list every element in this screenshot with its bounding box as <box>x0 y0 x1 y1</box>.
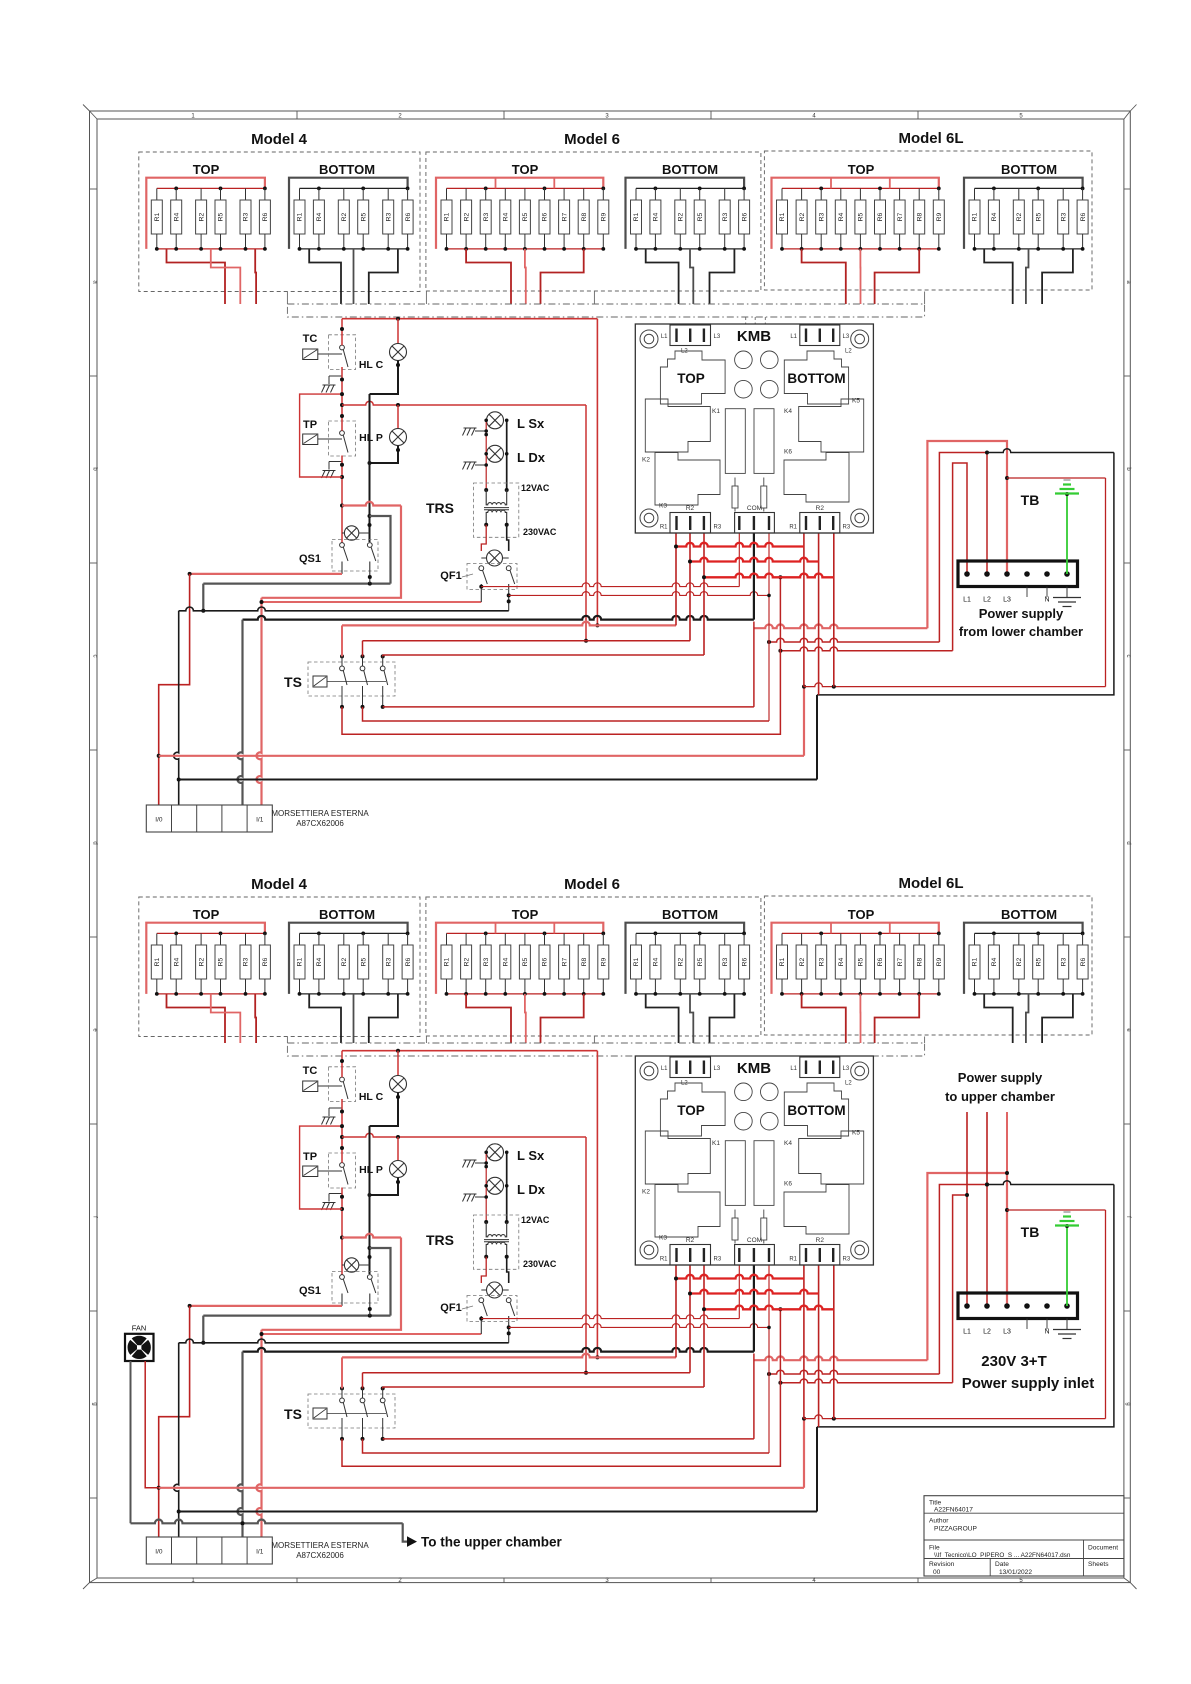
KMB indicator (upper) <box>761 380 779 398</box>
wire FAN phase <box>145 1361 159 1488</box>
svg-text:BOTTOM: BOTTOM <box>787 371 845 386</box>
ground L Dx (upper) <box>475 464 486 466</box>
phase exit wire 3 (Model6L TOP upper) <box>875 249 920 304</box>
wire QF1 neutral (lower) <box>179 1339 509 1343</box>
relay board KMB (lower) <box>635 1056 873 1265</box>
resistor R6 (Model4 TOP upper) <box>264 188 266 200</box>
svg-text:R1: R1 <box>154 957 161 966</box>
resistor R2 (Model4 TOP lower) <box>200 933 202 945</box>
terminal strip MORSETTIERA ESTERNA (lower) <box>146 1537 272 1564</box>
svg-text:L2: L2 <box>845 1081 852 1087</box>
KMB bottom connector right (lower) <box>800 1245 840 1266</box>
TS pole 2 (upper) <box>361 654 365 658</box>
terminal block TB (upper) <box>958 561 1078 587</box>
sectioner TS (upper) <box>308 662 395 696</box>
svg-text:c: c <box>1125 655 1131 658</box>
svg-text:KMB: KMB <box>737 1060 771 1077</box>
svg-text:R1: R1 <box>154 212 161 221</box>
resistor R1 (Model4 TOP lower) <box>156 933 158 945</box>
svg-text:R4: R4 <box>503 212 510 221</box>
svg-text:QS1: QS1 <box>299 553 321 565</box>
svg-text:R1: R1 <box>633 212 640 221</box>
phase exit wire 3 (Model4 TOP lower) <box>254 994 257 1043</box>
KMB indicator (lower) <box>735 1083 753 1101</box>
KMB relay K6 (upper) <box>784 453 849 503</box>
svg-text:R6: R6 <box>741 957 748 966</box>
resistor R2 (Model6 BOTTOM upper) <box>679 188 681 200</box>
wire phase drop to TS feed (lower) <box>596 1051 598 1358</box>
KMB driver block 2 (lower) <box>754 1141 774 1206</box>
svg-text:BOTTOM: BOTTOM <box>662 907 718 922</box>
KMB indicator (upper) <box>735 380 753 398</box>
svg-text:R4: R4 <box>316 212 323 221</box>
resistor R7 (Model6L TOP lower) <box>899 933 901 945</box>
phase exit wire 2 (Model6L BOTTOM lower) <box>1026 994 1029 1043</box>
wire KMB aux pin 2 (upper) <box>768 533 770 721</box>
svg-text:R1: R1 <box>972 957 979 966</box>
wire phase drop to TS feed (upper) <box>596 319 598 626</box>
resistor R5 (Model4 TOP upper) <box>220 188 222 200</box>
svg-text:Document: Document <box>1088 1545 1118 1552</box>
frame row ticks left <box>90 188 98 190</box>
svg-text:R6: R6 <box>262 957 269 966</box>
svg-text:MORSETTIERA ESTERNA: MORSETTIERA ESTERNA <box>271 1541 369 1550</box>
black supply loop Model6L BOTTOM lower <box>964 923 1083 994</box>
svg-text:L3: L3 <box>843 334 850 340</box>
resistor R4 (Model4 TOP lower) <box>175 933 177 945</box>
svg-text:R1: R1 <box>660 1257 668 1263</box>
resistor R1 (Model6 TOP upper) <box>446 188 448 200</box>
svg-text:L3: L3 <box>843 1066 850 1072</box>
wire phase bus to I/0 (lower) <box>159 1487 804 1489</box>
TC switch contact (lower) <box>340 1077 345 1082</box>
earth wire green (upper) <box>1066 494 1068 574</box>
KMB relay K3 (lower) <box>655 1185 720 1238</box>
wire KMB R1 left pin (upper) <box>675 533 677 625</box>
svg-text:12VAC: 12VAC <box>521 1215 550 1225</box>
resistor R2 (Model4 BOTTOM lower) <box>343 933 345 945</box>
svg-text:R2: R2 <box>198 212 205 221</box>
signal lamp HL C (lower) <box>397 1051 399 1076</box>
KMB bottom connector middle (lower) <box>735 1245 775 1266</box>
svg-text:A87CX62006: A87CX62006 <box>296 819 344 828</box>
wire lamp neutral trunk (lower) <box>369 1126 371 1274</box>
top bus Model6L TOP upper <box>782 187 939 189</box>
svg-text:Model 4: Model 4 <box>251 131 307 148</box>
svg-text:QS1: QS1 <box>299 1285 321 1297</box>
svg-text:R6: R6 <box>405 957 412 966</box>
svg-text:L3: L3 <box>714 334 721 340</box>
svg-text:R3: R3 <box>722 957 729 966</box>
resistor R9 (Model6L TOP upper) <box>938 188 940 200</box>
drawing frame outer border <box>90 111 1131 1583</box>
svg-text:To the upper chamber: To the upper chamber <box>421 1535 563 1550</box>
resistor R6 (Model4 BOTTOM upper) <box>407 188 409 200</box>
resistor R4 (Model6 BOTTOM upper) <box>654 188 656 200</box>
wire QF1 neutral (upper) <box>179 607 509 611</box>
red supply loop Model6 TOP upper <box>436 178 603 249</box>
svg-text:K2: K2 <box>642 457 650 464</box>
resistor R4 (Model6 TOP lower) <box>504 933 506 945</box>
svg-text:R3: R3 <box>843 525 851 531</box>
wire phase L3 from TB (upper) <box>754 624 928 628</box>
resistor R2 (Model6L BOTTOM upper) <box>1018 188 1020 200</box>
KMB relay K1-K2 (upper) <box>645 399 710 452</box>
top bus Model6L BOTTOM upper <box>975 187 1083 189</box>
KMB driver block 1 (upper) <box>725 409 745 474</box>
svg-text:L Dx: L Dx <box>517 1182 546 1197</box>
KMB relay K4-K5 (lower) <box>799 1131 864 1184</box>
wire HL C neutral (upper) <box>370 361 399 395</box>
svg-text:R6: R6 <box>741 212 748 221</box>
svg-text:L3: L3 <box>714 1066 721 1072</box>
resistor R7 (Model6 TOP lower) <box>563 933 565 945</box>
wire TS output 1 (upper) <box>342 577 780 734</box>
wire neutral left drop (upper) <box>202 584 204 611</box>
signal lamp HL C (upper) <box>397 319 399 344</box>
svg-text:R4: R4 <box>653 212 660 221</box>
svg-text:R3: R3 <box>1060 212 1067 221</box>
resistor R1 (Model6L TOP upper) <box>781 188 783 200</box>
wire bus A to TC and HL C (lower) <box>342 1050 597 1052</box>
wire KMB R1 left pin (lower) <box>675 1265 677 1357</box>
phase exit wire 1 (Model6L BOTTOM lower) <box>984 994 1013 1043</box>
wire TC-TP control vertical (lower) <box>341 1051 343 1078</box>
wire HL P neutral (upper) <box>370 446 399 463</box>
svg-text:K5: K5 <box>852 1130 860 1137</box>
svg-text:R1: R1 <box>779 957 786 966</box>
svg-text:R2: R2 <box>1016 957 1023 966</box>
resistor R3 (Model6 TOP upper) <box>485 188 487 200</box>
KMB relay K4-K5 (upper) <box>799 399 864 452</box>
svg-text:Author: Author <box>929 1518 949 1525</box>
earth symbol green (lower) <box>1055 1224 1079 1226</box>
resistor R5 (Model6 TOP lower) <box>524 933 526 945</box>
red supply loop Model6L TOP upper <box>772 178 939 249</box>
dash-dot interconnect band (upper) <box>287 304 924 317</box>
svg-text:PIZZAGROUP: PIZZAGROUP <box>934 1526 977 1533</box>
svg-text:R3: R3 <box>483 212 490 221</box>
terminal block TB (lower) <box>958 1293 1078 1319</box>
resistor R3 (Model4 TOP upper) <box>245 188 247 200</box>
svg-text:R4: R4 <box>173 957 180 966</box>
bottom bus Model6L TOP upper <box>782 248 939 250</box>
phase exit wire 1 (Model4 BOTTOM lower) <box>309 994 341 1043</box>
svg-text:L Sx: L Sx <box>517 416 545 431</box>
svg-text:I/0: I/0 <box>155 817 163 824</box>
svg-text:MORSETTIERA ESTERNA: MORSETTIERA ESTERNA <box>271 809 369 818</box>
wire phase L1 to upper chamber <box>966 1112 968 1195</box>
svg-text:230VAC: 230VAC <box>523 1259 557 1269</box>
svg-text:R7: R7 <box>897 957 904 966</box>
thermostat contact TP (lower) <box>303 1166 318 1177</box>
svg-text:R4: R4 <box>838 957 845 966</box>
svg-text:R3: R3 <box>843 1257 851 1263</box>
phase exit wire 1 (Model6L TOP lower) <box>802 994 846 1043</box>
wire KMB R3 right pin (lower) <box>833 1265 835 1419</box>
earth symbol green (upper) <box>1055 492 1079 494</box>
svg-text:R8: R8 <box>581 212 588 221</box>
wire phase bus to I/0 (upper) <box>159 755 804 757</box>
wire neutral bus to left (lower) <box>203 1314 390 1316</box>
svg-text:R1: R1 <box>972 212 979 221</box>
frame corner bevels <box>90 111 98 119</box>
KMB resistor r1 (lower) <box>734 1210 736 1219</box>
resistor R1 (Model6L BOTTOM lower) <box>974 933 976 945</box>
svg-text:Power supply: Power supply <box>979 606 1064 621</box>
dash-dot interconnect band (lower) <box>287 1043 924 1056</box>
resistor R6 (Model6L BOTTOM upper) <box>1082 188 1084 200</box>
phase exit wire 1 (Model4 TOP lower) <box>167 994 226 1043</box>
dashed enclosure Model 6 <box>426 152 761 291</box>
ground L Sx (lower) <box>475 1162 486 1164</box>
phase exit wire 2 (Model6 BOTTOM lower) <box>690 994 693 1043</box>
TC ground branch (upper) <box>341 370 343 376</box>
KMB bottom connector left (upper) <box>670 513 711 534</box>
black supply loop Model6L BOTTOM upper <box>964 178 1083 249</box>
TB terminal (lower) <box>964 1303 970 1309</box>
svg-text:R3: R3 <box>722 212 729 221</box>
svg-text:K4: K4 <box>784 1140 792 1147</box>
svg-text:R2: R2 <box>198 957 205 966</box>
resistor R7 (Model6 TOP upper) <box>563 188 565 200</box>
TS pole 1 (lower) <box>340 1386 344 1390</box>
svg-text:R2: R2 <box>686 505 695 512</box>
phase exit wire 3 (Model4 TOP upper) <box>254 249 257 304</box>
phase exit wire 2 (Model4 BOTTOM upper) <box>353 249 355 304</box>
phase exit wire 3 (Model6 BOTTOM lower) <box>710 994 735 1043</box>
svg-text:12VAC: 12VAC <box>521 483 550 493</box>
KMB indicator (upper) <box>735 351 753 369</box>
svg-text:L1: L1 <box>790 1066 797 1072</box>
resistor R5 (Model6L BOTTOM upper) <box>1037 188 1039 200</box>
wire lamp feeds 12VAC (upper) <box>485 420 487 490</box>
resistor R4 (Model6L TOP upper) <box>840 188 842 200</box>
bottom bus Model6 BOTTOM upper <box>636 248 744 250</box>
svg-text:R8: R8 <box>916 957 923 966</box>
svg-text:Power supply inlet: Power supply inlet <box>962 1375 1095 1392</box>
dashed enclosure Model 6 <box>426 897 761 1036</box>
resistor R6 (Model6 TOP lower) <box>544 933 546 945</box>
KMB relay K3 (upper) <box>655 453 720 506</box>
KMB mounting hole (upper) <box>640 330 658 348</box>
relay board KMB (upper) <box>635 324 873 533</box>
top bus Model4 TOP lower <box>157 932 265 934</box>
svg-text:KMB: KMB <box>737 328 771 345</box>
wire TS pole2 top to KMB R2 (upper) <box>363 640 691 642</box>
svg-text:BOTTOM: BOTTOM <box>1001 907 1057 922</box>
svg-text:R2: R2 <box>799 957 806 966</box>
resistor R3 (Model6 BOTTOM lower) <box>724 933 726 945</box>
wire switched phase loop to terminal I/1 (upper) <box>342 502 401 506</box>
TP switch contact (lower) <box>340 1163 345 1168</box>
wire QF1 feed (lower) <box>262 1333 482 1335</box>
svg-text:230V 3+T: 230V 3+T <box>981 1353 1046 1370</box>
resistor R2 (Model6L TOP lower) <box>801 933 803 945</box>
KMB indicator (lower) <box>761 1083 779 1101</box>
wire jumper R2-R2 (lower) <box>690 1290 819 1294</box>
svg-text:COM: COM <box>747 1237 762 1244</box>
wire TS output 2 (lower) <box>363 1439 770 1453</box>
svg-text:R6: R6 <box>877 212 884 221</box>
TS pole 1 (upper) <box>340 654 344 658</box>
svg-text:R8: R8 <box>581 957 588 966</box>
svg-text:R3: R3 <box>818 957 825 966</box>
svg-text:R3: R3 <box>714 525 722 531</box>
lamp L Dx (lower) <box>487 1177 504 1194</box>
phase exit wire 3 (Model6L BOTTOM lower) <box>1042 994 1073 1043</box>
svg-text:R9: R9 <box>936 212 943 221</box>
phase exit wire 3 (Model4 BOTTOM lower) <box>369 994 398 1043</box>
KMB indicator (upper) <box>761 351 779 369</box>
wire neutral to power terminal (upper) <box>987 449 1114 453</box>
svg-text:R5: R5 <box>858 212 865 221</box>
svg-text:N: N <box>1044 1329 1049 1336</box>
resistor R1 (Model6L BOTTOM upper) <box>974 188 976 200</box>
svg-text:L3: L3 <box>1003 1329 1011 1336</box>
phase exit wire 2 (Model6 BOTTOM upper) <box>690 249 693 304</box>
resistor R3 (Model6 BOTTOM upper) <box>724 188 726 200</box>
resistor R1 (Model4 TOP upper) <box>156 188 158 200</box>
wire TS output 1 (lower) <box>342 1309 780 1466</box>
svg-text:R1: R1 <box>297 212 304 221</box>
transformer TRS (lower) <box>474 1215 519 1269</box>
svg-text:00: 00 <box>933 1569 941 1576</box>
dashed enclosure Model 6L <box>764 896 1092 1035</box>
bottom bus Model6 BOTTOM lower <box>636 993 744 995</box>
svg-text:R5: R5 <box>218 957 225 966</box>
KMB bottom connector middle (upper) <box>735 513 775 534</box>
svg-text:L Dx: L Dx <box>517 450 546 465</box>
phase exit wire 3 (Model6 TOP upper) <box>541 249 584 304</box>
bottom bus Model4 BOTTOM upper <box>300 248 408 250</box>
wire neutral loop (lower) <box>370 1248 391 1316</box>
svg-text:R6: R6 <box>405 212 412 221</box>
svg-text:TOP: TOP <box>512 162 539 177</box>
resistor R8 (Model6L TOP upper) <box>918 188 920 200</box>
svg-text:L2: L2 <box>845 349 852 355</box>
svg-text:TC: TC <box>303 1065 318 1077</box>
TB terminal (upper) <box>1064 571 1070 577</box>
phase exit wire 2 (Model6 TOP lower) <box>524 994 527 1043</box>
KMB BOTTOM relay block (upper) <box>784 351 848 404</box>
svg-text:R5: R5 <box>522 957 529 966</box>
resistor R3 (Model6 TOP lower) <box>485 933 487 945</box>
wire COM neutral to terminal (lower) <box>243 1348 754 1352</box>
svg-text:K3: K3 <box>659 1235 667 1242</box>
resistor R2 (Model6L BOTTOM lower) <box>1018 933 1020 945</box>
KMB driver block 2 (upper) <box>754 409 774 474</box>
wire bus A to TC and HL C (upper) <box>342 318 597 320</box>
top bus Model6L TOP lower <box>782 932 939 934</box>
phase exit wire 3 (Model6L TOP lower) <box>875 994 920 1043</box>
wire left phase drop to terminal I/0 (lower) <box>159 1306 190 1537</box>
wire TS pole1 top to KMB R1 (lower) <box>342 1354 676 1358</box>
svg-text:Model 6: Model 6 <box>564 876 620 893</box>
wire neutral to power terminal (lower) <box>987 1181 1114 1185</box>
svg-text:File: File <box>929 1545 940 1552</box>
wire FAN neutral <box>130 1361 132 1523</box>
svg-text:Revision: Revision <box>929 1561 955 1568</box>
phase exit wire 1 (Model6 TOP upper) <box>466 249 511 304</box>
svg-text:from lower chamber: from lower chamber <box>959 624 1083 639</box>
terminal strip MORSETTIERA ESTERNA (upper) <box>146 805 272 832</box>
resistor R3 (Model6L BOTTOM lower) <box>1062 933 1064 945</box>
phase exit wire 1 (Model4 BOTTOM upper) <box>309 249 341 304</box>
wire KMB COM pin (upper) <box>753 533 755 620</box>
svg-text:TOP: TOP <box>677 1103 705 1118</box>
resistor R2 (Model4 BOTTOM upper) <box>343 188 345 200</box>
resistor R4 (Model6 TOP upper) <box>504 188 506 200</box>
svg-text:R3: R3 <box>385 957 392 966</box>
svg-text:N: N <box>1044 597 1049 604</box>
svg-text:13/01/2022: 13/01/2022 <box>999 1569 1032 1576</box>
svg-text:TC: TC <box>303 333 318 345</box>
wire phase L3 from TB (lower) <box>754 1356 928 1360</box>
TB terminal stubs (upper) <box>1026 587 1028 598</box>
resistor R4 (Model6 BOTTOM lower) <box>654 933 656 945</box>
svg-text:R5: R5 <box>360 212 367 221</box>
svg-text:L2: L2 <box>983 597 991 604</box>
svg-text:TB: TB <box>1021 492 1040 508</box>
resistor R9 (Model6L TOP lower) <box>938 933 940 945</box>
wire KMB R3 right pin (upper) <box>833 533 835 687</box>
svg-text:R4: R4 <box>316 957 323 966</box>
wire control line a to KMB (lower) <box>481 1315 739 1319</box>
phase exit wire 2 (Model6 TOP upper) <box>524 249 527 304</box>
resistor R2 (Model6 TOP lower) <box>465 933 467 945</box>
KMB relay K6 (lower) <box>784 1185 849 1235</box>
svg-text:R2: R2 <box>341 957 348 966</box>
svg-text:Model 6L: Model 6L <box>898 875 963 892</box>
phase exit wire 2 (Model6L BOTTOM upper) <box>1026 249 1029 304</box>
resistor R9 (Model6 TOP lower) <box>602 933 604 945</box>
resistor R6 (Model6 BOTTOM upper) <box>743 188 745 200</box>
svg-text:R2: R2 <box>463 212 470 221</box>
svg-text:R5: R5 <box>360 957 367 966</box>
wire bottom oven phase return (upper) <box>1007 477 1106 479</box>
svg-text:L2: L2 <box>681 1081 688 1087</box>
KMB top connector right (upper) <box>800 325 840 346</box>
phase exit wire 2 (Model4 TOP lower) <box>211 994 241 1043</box>
sectioner TS (lower) <box>308 1394 395 1428</box>
svg-text:L2: L2 <box>681 349 688 355</box>
signal lamp HL P (lower) <box>397 1137 399 1161</box>
svg-text:R6: R6 <box>542 212 549 221</box>
svg-text:R5: R5 <box>697 212 704 221</box>
resistor R1 (Model6 BOTTOM lower) <box>635 933 637 945</box>
TS pole 3 (upper) <box>381 654 385 658</box>
svg-text:K5: K5 <box>852 398 860 405</box>
top bus Model6 BOTTOM upper <box>636 187 744 189</box>
QF1 dashed enclosure (upper) <box>467 564 517 590</box>
wire phase L1 from TB (upper) <box>780 647 952 651</box>
ground L Sx (upper) <box>475 430 486 432</box>
svg-text:R2: R2 <box>463 957 470 966</box>
wire phase L1 from TB (lower) <box>780 1379 952 1383</box>
wire bus B to TP and HL P (upper) <box>342 401 586 405</box>
svg-text:R5: R5 <box>858 957 865 966</box>
svg-text:R1: R1 <box>789 1257 797 1263</box>
TB terminal (lower) <box>1044 1303 1050 1309</box>
svg-text:R3: R3 <box>385 212 392 221</box>
svg-text:TOP: TOP <box>193 907 220 922</box>
resistor R5 (Model6 TOP upper) <box>524 188 526 200</box>
resistor R3 (Model4 BOTTOM lower) <box>387 933 389 945</box>
KMB bottom connector right (upper) <box>800 513 840 534</box>
svg-text:R2: R2 <box>341 212 348 221</box>
wire lamp feeds 12VAC (lower) <box>485 1152 487 1222</box>
